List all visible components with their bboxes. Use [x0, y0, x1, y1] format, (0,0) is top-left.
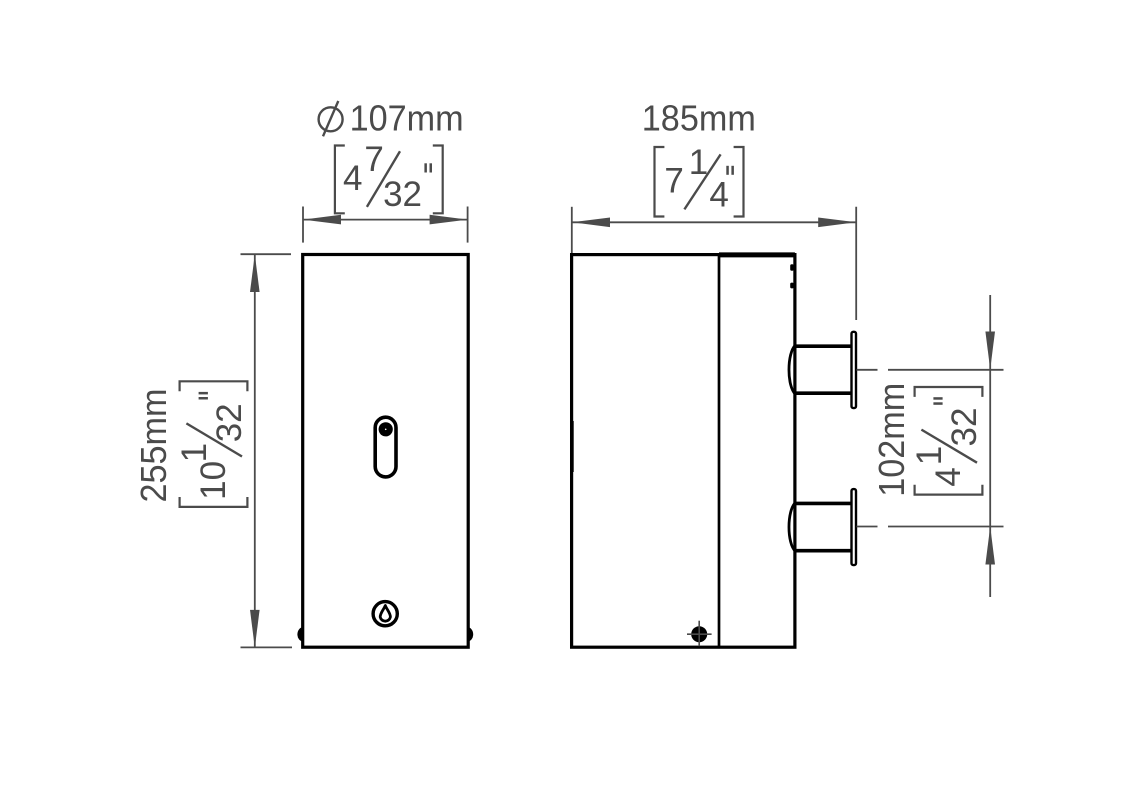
dimension 185mm line: [572, 221, 856, 223]
svg-text:107mm: 107mm: [350, 98, 464, 139]
spout 2 arc: [789, 503, 796, 552]
dimension 102mm line: [989, 295, 991, 597]
dimension 107mm line: [303, 219, 468, 221]
svg-text:7: 7: [664, 162, 683, 201]
right edge tab 2: [790, 283, 794, 289]
sensor window oval: [375, 417, 396, 477]
svg-text:4: 4: [709, 175, 728, 214]
svg-text:1: 1: [175, 443, 214, 462]
dimension 102mm extension lines: [857, 369, 878, 371]
side view body: [572, 255, 795, 648]
svg-text:4: 4: [343, 159, 362, 198]
front view body: [303, 255, 469, 648]
right edge tab 1: [790, 264, 794, 271]
bottom left tab: [297, 627, 303, 641]
bracket fraction 7 1/4 inch: [655, 143, 744, 217]
diameter symbol: [319, 107, 343, 131]
side view back plate thick top edge: [719, 252, 795, 257]
spout 1 flange: [852, 332, 857, 408]
screw crosshair: [687, 633, 712, 635]
svg-text:185mm: 185mm: [642, 98, 756, 139]
svg-text:1: 1: [910, 446, 949, 465]
svg-text:102mm: 102mm: [871, 383, 912, 497]
spout 1 arc: [789, 345, 796, 394]
dimension 255mm line: [254, 254, 256, 648]
svg-text:255mm: 255mm: [133, 389, 174, 503]
droplet: [380, 606, 390, 622]
dimension 107mm extension lines: [302, 207, 304, 243]
dimension 102mm arrows: [985, 332, 995, 370]
left edge seam: [572, 421, 574, 472]
drop icon circle: [373, 602, 397, 626]
svg-text:32: 32: [383, 175, 422, 214]
sensor dot: [379, 422, 393, 436]
svg-text:7: 7: [364, 140, 383, 179]
svg-text:10: 10: [194, 461, 233, 500]
screw dot: [691, 626, 707, 642]
spout 2 cylinder: [794, 502, 851, 506]
bottom right tab: [468, 627, 474, 641]
dimension 185mm arrows: [572, 218, 610, 228]
bracket fraction 10 1/32 inch rotated: [175, 381, 249, 507]
svg-text:4: 4: [929, 467, 968, 486]
dimension 255mm extension lines: [241, 253, 292, 255]
dimension 107mm arrows: [303, 215, 341, 225]
svg-text:32: 32: [945, 408, 984, 447]
dimension 185mm extension lines: [571, 207, 573, 253]
dimension 255mm arrows: [250, 254, 260, 292]
spout 1 cylinder: [794, 344, 851, 348]
svg-text:32: 32: [210, 403, 249, 442]
bracket fraction 4 1/32 inch rotated: [910, 387, 984, 495]
spout 2 flange: [852, 489, 857, 565]
side view inner vertical line: [718, 254, 721, 647]
bracket fraction 4 7/32 inch: [335, 140, 443, 214]
